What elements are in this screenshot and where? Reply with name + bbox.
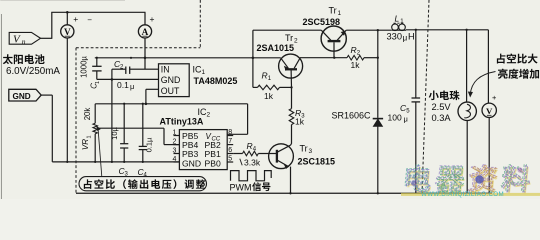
svg-text:7: 7 — [228, 138, 232, 145]
svg-text:R: R — [351, 45, 357, 55]
svg-text:1k: 1k — [351, 60, 361, 70]
svg-text:2SA1015: 2SA1015 — [257, 43, 295, 53]
svg-text:3: 3 — [309, 148, 313, 155]
wire gnd rail — [52, 161, 179, 163]
wire C1 C2 ground drop — [97, 69, 159, 162]
svg-text:330: 330 — [387, 31, 403, 41]
wire Tr1 emitter to switch node — [346, 29, 391, 31]
label C5 — [388, 103, 411, 124]
wire voltmeter to gnd rail — [66, 38, 68, 162]
label Tr3 — [298, 144, 336, 167]
voltmeter V input — [61, 12, 92, 38]
svg-text:2: 2 — [173, 139, 177, 146]
svg-text:μ: μ — [404, 114, 408, 123]
lamp bulb 小电珠 — [458, 30, 476, 194]
voltmeter V output — [482, 30, 497, 118]
capacitor C5 100u — [412, 30, 421, 194]
svg-text:V: V — [486, 106, 493, 116]
label IC1 — [193, 65, 238, 87]
label C3 — [110, 126, 129, 177]
op-amp IC1 TA48M025 regulator box — [159, 64, 190, 97]
svg-text:2SC5198: 2SC5198 — [303, 17, 341, 27]
diode D SR1606C — [373, 119, 383, 194]
svg-text:IN: IN — [161, 65, 170, 75]
PWM square wave symbol — [231, 171, 272, 181]
svg-text:Tr: Tr — [329, 6, 337, 16]
svg-text:GND: GND — [161, 75, 181, 85]
wire bottom output rail — [76, 192, 492, 194]
callout line label to VR1 — [98, 131, 102, 177]
svg-text:3.3k: 3.3k — [244, 157, 261, 167]
capacitor C1 1000u — [92, 58, 101, 80]
svg-text:6: 6 — [228, 147, 232, 154]
svg-text:1: 1 — [86, 135, 92, 138]
svg-text:TA48M025: TA48M025 — [194, 76, 238, 86]
svg-text:10µ: 10µ — [110, 126, 119, 139]
svg-text:+: + — [73, 14, 78, 24]
svg-text:4: 4 — [173, 156, 177, 163]
node GND input flag — [9, 89, 41, 101]
svg-text:5: 5 — [228, 155, 232, 162]
label R4 — [240, 141, 261, 168]
IC2 left pin stubs 1-4 — [173, 130, 180, 164]
svg-text:1: 1 — [173, 130, 177, 137]
wire Tr2 collector to Tr1 base and R2 — [300, 57, 347, 59]
svg-text:PB0: PB0 — [205, 158, 221, 168]
wire ammeter down to IC1 IN — [144, 38, 159, 69]
svg-text:2: 2 — [294, 37, 298, 44]
svg-text:1: 1 — [202, 69, 206, 76]
svg-text:R: R — [247, 141, 253, 151]
label Tr1 — [303, 6, 342, 27]
op-amp IC2 ATtiny13A MCU box — [179, 130, 227, 170]
svg-text:20k: 20k — [83, 108, 92, 121]
resistor R2 1k — [347, 55, 379, 60]
label C2 — [114, 59, 134, 91]
label lamp 小电珠 2.5V 0.3A — [429, 90, 460, 123]
svg-text:ATtiny13A: ATtiny13A — [160, 117, 204, 127]
wire output voltmeter down — [488, 118, 490, 194]
wire Tr3 emitter to bottom rail — [290, 167, 292, 194]
capacitor C3 10u — [120, 104, 128, 162]
watermark url text — [421, 191, 504, 198]
wire 2.5V rail — [95, 103, 247, 106]
wire 2.5V rail to IC2 pin8 — [227, 104, 247, 135]
label IC2 — [160, 107, 211, 127]
label SR1606C — [332, 110, 372, 120]
svg-text:μ: μ — [403, 33, 408, 42]
svg-text:WWW.DIANQIZILIAO.COM: WWW.DIANQIZILIAO.COM — [421, 191, 504, 198]
label R1 — [262, 71, 274, 101]
svg-text:L: L — [395, 14, 400, 24]
svg-text:OUT: OUT — [161, 86, 180, 96]
wire switch node vertical — [377, 30, 379, 118]
svg-text:3: 3 — [173, 148, 177, 155]
svg-text:SR1606C: SR1606C — [332, 110, 372, 120]
label C1 value — [79, 56, 101, 89]
svg-text:n: n — [22, 37, 26, 46]
label VR1 — [81, 108, 93, 150]
label PWM signal — [230, 182, 271, 192]
wire Vn to top rail — [41, 12, 52, 39]
svg-text:0.3A: 0.3A — [432, 113, 452, 123]
transistor Q Tr1 2SC5198 — [321, 26, 346, 58]
svg-text:−: − — [87, 16, 92, 25]
inductor L1 330uH — [392, 23, 406, 30]
arrow note to lamp — [468, 72, 495, 97]
capacitor C2 0.1u — [112, 67, 145, 74]
label R2 — [351, 45, 361, 70]
label L1 — [387, 14, 415, 43]
ammeter A — [138, 12, 154, 38]
svg-text:6.0V/250mA: 6.0V/250mA — [6, 66, 60, 77]
svg-text:Tr: Tr — [300, 144, 308, 154]
label solar battery 太阳电池 6.0V/250mA — [3, 54, 61, 77]
resistor R3 1k — [289, 87, 294, 124]
watermark 电器资料 — [401, 165, 540, 196]
wire VR1 wiper to IC2 pin2 — [99, 128, 180, 144]
svg-text:GND: GND — [13, 92, 31, 101]
svg-text:100: 100 — [388, 112, 402, 122]
svg-text:Tr: Tr — [285, 33, 293, 43]
label C4 — [138, 137, 154, 178]
svg-text:0.1µ: 0.1µ — [145, 137, 154, 152]
transistor Q Tr3 2SC1815 — [269, 144, 294, 169]
svg-text:R: R — [262, 71, 268, 81]
label R3 — [295, 108, 305, 127]
svg-text:VR: VR — [81, 139, 90, 150]
wire output rail — [406, 29, 488, 31]
svg-text:2: 2 — [207, 111, 211, 118]
svg-text:+: + — [492, 93, 497, 102]
svg-text:1: 1 — [95, 81, 101, 84]
wire main +6V rail — [95, 57, 281, 59]
resistor R4 3.3k — [233, 151, 269, 156]
label duty cycle note 占空比大 亮度增加 — [497, 53, 539, 78]
svg-text:2.5V: 2.5V — [432, 102, 452, 112]
svg-text:1k: 1k — [264, 91, 274, 101]
svg-text:A: A — [142, 27, 149, 37]
resistor R1 1k — [252, 57, 293, 90]
svg-text:GND: GND — [182, 158, 201, 168]
IC2 right pin stubs 8,7,6,5 — [227, 129, 233, 163]
svg-text:+: + — [150, 14, 155, 24]
wire GND flag to gnd rail — [41, 95, 52, 162]
wire top rail — [51, 11, 145, 14]
svg-text:H: H — [408, 31, 415, 41]
svg-text:1k: 1k — [295, 117, 305, 127]
transistor Q Tr2 2SA1015 — [279, 54, 303, 87]
svg-text:2SC1815: 2SC1815 — [298, 156, 336, 166]
capacitor C4 0.1u — [139, 104, 147, 162]
svg-text:0.1: 0.1 — [117, 80, 129, 90]
wire IC1 OUT to 2.5V rail — [146, 89, 159, 104]
svg-text:V: V — [64, 27, 71, 37]
scan edge left border — [0, 1, 125, 199]
svg-text:8: 8 — [228, 129, 232, 136]
svg-text:μ: μ — [130, 82, 134, 91]
dashed boundary right edge — [422, 0, 429, 193]
svg-text:PWM: PWM — [230, 183, 252, 193]
wire Tr1 collector rail — [253, 30, 321, 58]
potentiometer VR1 20k — [93, 104, 100, 162]
node Vn input flag — [9, 32, 40, 46]
rounded label 占空比(输出电压)调整 — [79, 177, 207, 191]
svg-text:1000µ: 1000µ — [79, 56, 88, 78]
label Tr2 — [257, 33, 299, 53]
dashed boundary left section — [76, 0, 200, 193]
wire Tr3 collector up / R3 chain — [291, 125, 292, 146]
